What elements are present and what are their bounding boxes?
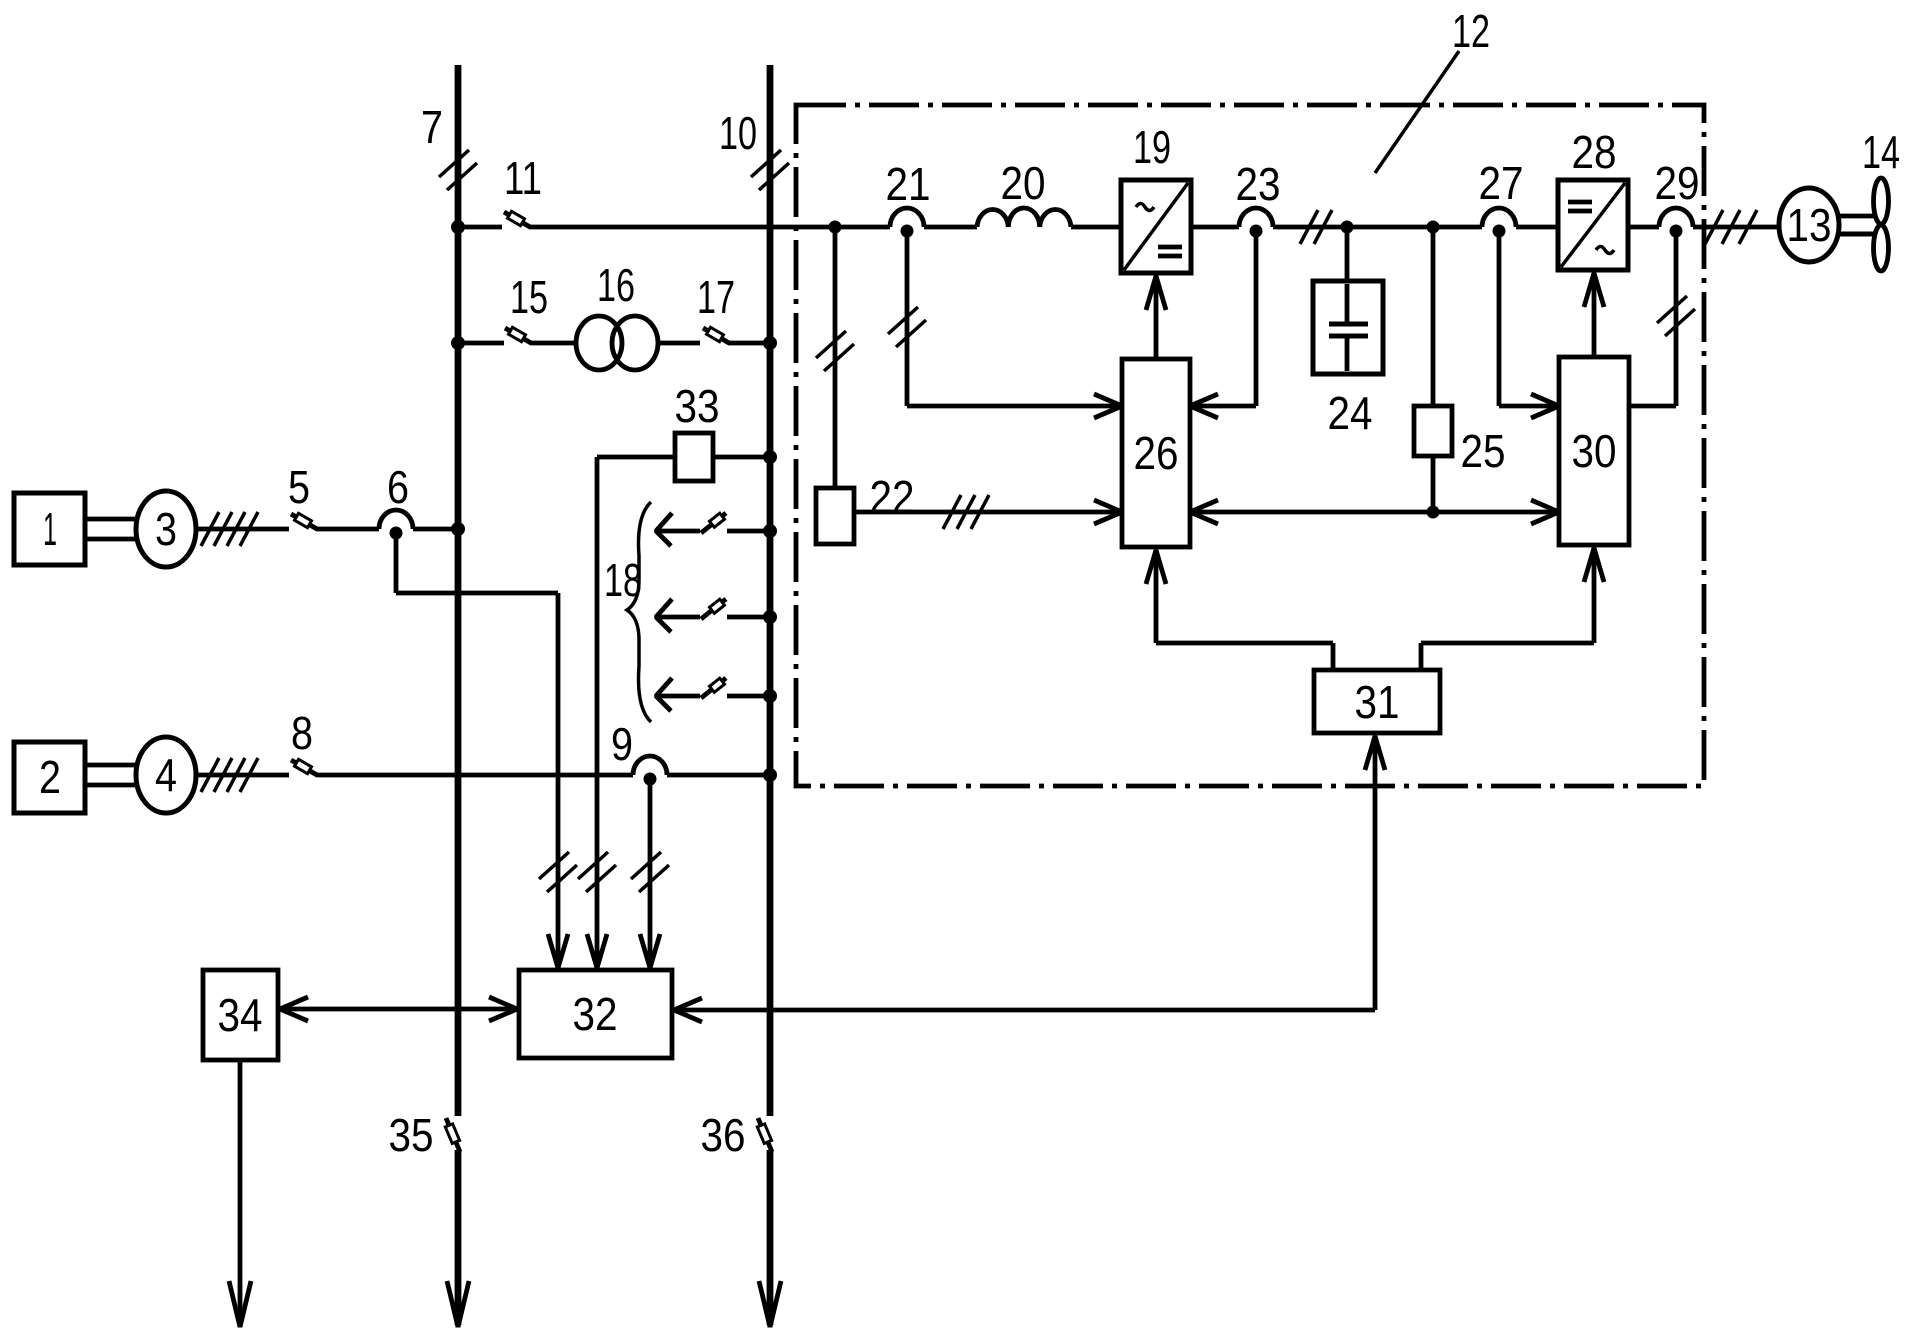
svg-text:36: 36 xyxy=(701,1109,746,1161)
controller 26 xyxy=(1122,359,1190,547)
node on bus 7 at line 15 xyxy=(451,336,465,350)
svg-text:7: 7 xyxy=(421,101,443,153)
node capacitor tap xyxy=(1341,221,1354,234)
svg-text:34: 34 xyxy=(218,989,263,1041)
node A junction in box 12 xyxy=(829,221,842,234)
switch 5 xyxy=(291,513,317,529)
break slashes on tap 6 xyxy=(539,852,577,892)
link wire 26 to 30 xyxy=(1192,510,1557,515)
arrow into 32 from sensor 6 xyxy=(548,934,568,968)
node on bus 10 at 33 xyxy=(763,450,777,464)
node on bus 10 at line 8 xyxy=(763,768,777,782)
wire: node to box 25 and link line xyxy=(1431,227,1436,512)
svg-text:12: 12 xyxy=(1452,5,1490,57)
break slashes on tap 29 xyxy=(1657,296,1695,336)
arrow into 30 left lower xyxy=(1531,500,1559,524)
brace for group 18 xyxy=(627,502,651,722)
svg-text:30: 30 xyxy=(1572,425,1617,477)
coordinator 31 xyxy=(1314,670,1440,733)
svg-text:31: 31 xyxy=(1355,676,1400,728)
wire: sensor 21 to inductor 20 xyxy=(924,225,977,230)
break slashes on tap 22 xyxy=(816,331,854,371)
svg-text:24: 24 xyxy=(1328,387,1373,439)
contactor 18a xyxy=(656,513,770,546)
break slashes on tap 33 xyxy=(578,852,616,892)
box 33 (voltage sensor) xyxy=(675,433,713,481)
phase slashes before motor xyxy=(1705,210,1757,244)
leader line for 12 xyxy=(1375,51,1459,173)
switch 15 xyxy=(505,327,531,343)
wire: box 33 tap down to 32 xyxy=(597,457,675,966)
wire: capacitor 24 feed xyxy=(1345,227,1350,281)
wire: sensor 21 tap to controller 26 xyxy=(907,235,1120,406)
svg-text:3: 3 xyxy=(155,503,177,555)
svg-text:35: 35 xyxy=(389,1109,434,1161)
current sensor 23 xyxy=(1239,208,1273,238)
wire: 31 to 30 (control) xyxy=(1421,548,1594,670)
svg-text:9: 9 xyxy=(611,718,633,770)
wire: sensor 29 to motor 13 xyxy=(1693,225,1779,230)
wire: converter 28 to sensor 29 xyxy=(1628,225,1659,230)
box 22 (voltage sensor) xyxy=(816,488,854,544)
wire: 31 to 26 (control) xyxy=(1156,550,1333,670)
svg-text:19: 19 xyxy=(1133,121,1171,173)
break slashes on tap 9 xyxy=(631,852,669,892)
arrow into 32 left xyxy=(489,997,517,1021)
svg-text:23: 23 xyxy=(1236,158,1281,210)
arrow into 26 left lower xyxy=(1094,500,1122,524)
bus 10 break slashes xyxy=(751,150,789,190)
svg-text:4: 4 xyxy=(155,749,177,801)
arrow into 30 left upper xyxy=(1531,394,1559,418)
node 18c on bus 10 xyxy=(763,689,777,703)
arrow into 31 bottom xyxy=(1365,736,1385,770)
node 18b on bus 10 xyxy=(763,610,777,624)
shaft motor to propeller xyxy=(1839,216,1874,234)
svg-text:29: 29 xyxy=(1655,157,1700,209)
current sensor 6 xyxy=(379,510,413,540)
propeller 14 xyxy=(1874,178,1889,271)
node on bus 7 at line 5 xyxy=(451,522,465,536)
arrow into 19 xyxy=(1146,276,1166,310)
current sensor 29 xyxy=(1659,208,1693,238)
switch 17 xyxy=(703,327,729,343)
wire: switch 17 to bus 10 xyxy=(728,341,770,346)
svg-text:17: 17 xyxy=(697,271,735,323)
node 18a on bus 10 xyxy=(763,524,777,538)
wire: node A tap down to box 22 xyxy=(833,231,838,488)
switch 36 on bus 10 xyxy=(757,1118,772,1152)
switch 8 xyxy=(291,759,317,775)
control system 32 xyxy=(519,970,672,1058)
arrow into 26 left upper xyxy=(1094,394,1122,418)
current sensor 21 xyxy=(890,208,924,238)
box 1 (energy source) xyxy=(14,493,85,565)
wire: controller 30 to converter 28 (control) xyxy=(1592,275,1597,357)
capacitor 24 xyxy=(1313,281,1383,374)
wire: sensor 9 to bus 10 xyxy=(667,773,770,778)
controller 30 xyxy=(1559,357,1629,545)
current sensor 9 xyxy=(633,756,667,786)
wire: bus7 to switch 11 xyxy=(458,225,502,230)
arrow into 28 xyxy=(1584,273,1604,307)
converter 28 (DC/AC inverter) xyxy=(1558,180,1628,270)
wire: sensor 23 to sensor 27 (dc link) xyxy=(1273,225,1482,230)
box 2 (energy source) xyxy=(14,742,85,813)
wire: sensor 29 tap to controller 30 xyxy=(1629,235,1676,406)
phase slashes after generator 4 xyxy=(201,758,258,792)
node on link at 25 xyxy=(1427,506,1440,519)
svg-text:28: 28 xyxy=(1572,126,1617,178)
wire: sensor 6 to bus 7 xyxy=(413,527,458,532)
node on bus 10 at line 17 xyxy=(763,336,777,350)
svg-text:32: 32 xyxy=(573,988,618,1040)
svg-text:2: 2 xyxy=(39,751,61,803)
wire: generator 3 to switch 5 xyxy=(196,527,289,532)
generator 4 xyxy=(136,737,196,813)
box 34 xyxy=(203,970,278,1060)
wire: switch 11 to node A (crosses bus 10) xyxy=(529,225,890,230)
arrow into 34 xyxy=(280,997,308,1021)
wire: converter 19 to sensor 23 xyxy=(1191,225,1239,230)
svg-text:16: 16 xyxy=(597,259,635,311)
wire: sensor 23 tap to controller 26 xyxy=(1192,235,1256,406)
contactor 18b xyxy=(656,599,770,632)
wire: bus7 to switch 15 xyxy=(458,341,504,346)
wire: box 22 to controller 26 xyxy=(854,510,1120,515)
wire: switch 15 to transformer 16 xyxy=(530,341,577,346)
arrow into 32 right xyxy=(674,998,702,1022)
switch 11 xyxy=(504,211,530,227)
arrow into 30 bottom xyxy=(1584,548,1604,582)
converter 19 (AC/DC rectifier) xyxy=(1121,180,1191,273)
wire: inductor 20 to converter 19 xyxy=(1071,225,1121,230)
wire: 34 down output xyxy=(238,1060,243,1325)
box 25 (voltage sensor) xyxy=(1414,406,1452,456)
switch 35 on bus 7 xyxy=(445,1118,460,1152)
transformer 16 xyxy=(576,316,658,370)
arrow into 26 right lower xyxy=(1190,500,1218,524)
inductor 20 xyxy=(977,208,1071,227)
wire: generator 4 to switch 8 xyxy=(196,773,289,778)
break slashes on tap 21 xyxy=(888,307,926,347)
wire: sensor 27 tap to controller 30 xyxy=(1499,235,1557,406)
arrow into 26 bottom xyxy=(1146,550,1166,584)
wire: transformer 16 to switch 17 xyxy=(658,341,700,346)
wire: switch 8 to sensor 9 (crosses bus 7) xyxy=(316,773,633,778)
svg-text:33: 33 xyxy=(675,380,720,432)
shaft box1 to generator 3 xyxy=(85,519,137,539)
svg-text:22: 22 xyxy=(870,471,915,523)
svg-text:14: 14 xyxy=(1862,126,1900,178)
wire: sensor 9 tap down to 32 xyxy=(648,779,653,966)
dash-dot enclosure box 12 xyxy=(796,105,1704,786)
arrow into 32 from 33 xyxy=(587,934,607,968)
node 25 tap xyxy=(1427,221,1440,234)
current sensor 27 xyxy=(1482,208,1516,238)
bus 10 bottom arrow xyxy=(759,1281,781,1327)
shaft box2 to generator 4 xyxy=(85,765,137,785)
svg-text:25: 25 xyxy=(1461,425,1506,477)
svg-text:8: 8 xyxy=(291,707,313,759)
svg-text:20: 20 xyxy=(1001,157,1046,209)
arrow into 32 from 9 xyxy=(640,934,660,968)
bus 10 (lower vertical busbar) xyxy=(767,65,774,1325)
motor 13 xyxy=(1779,188,1839,262)
wire: sensor 6 tap down xyxy=(396,533,558,966)
wire: 32 to 31 (control, crosses bus 10 and border 12) xyxy=(676,736,1375,1010)
arrow into 26 right upper xyxy=(1190,394,1218,418)
contactor 18c xyxy=(656,678,770,711)
svg-text:26: 26 xyxy=(1134,427,1179,479)
svg-text:21: 21 xyxy=(886,158,931,210)
break slashes on dc link xyxy=(1300,210,1332,244)
phase slashes after generator 3 xyxy=(201,512,258,546)
arrow at 34 output bottom xyxy=(229,1281,251,1327)
bus 7 break slashes xyxy=(439,150,477,190)
svg-text:11: 11 xyxy=(504,152,542,204)
svg-text:1: 1 xyxy=(43,503,57,555)
phase slashes on 22 wire xyxy=(943,495,989,529)
svg-text:10: 10 xyxy=(719,107,757,159)
wire: box 33 to bus 10 xyxy=(713,455,770,460)
wire: switch 5 to sensor 6 xyxy=(316,527,379,532)
generator 3 xyxy=(136,491,196,567)
svg-text:5: 5 xyxy=(288,461,310,513)
wire: controller 26 to converter 19 (control) xyxy=(1154,278,1159,359)
wire: 34 link 32 (double arrow, crosses bus 7) xyxy=(278,1007,517,1012)
node on bus 7 at line 11 xyxy=(451,220,465,234)
wire: sensor 27 to converter 28 xyxy=(1516,225,1558,230)
svg-text:27: 27 xyxy=(1479,157,1524,209)
bus 7 bottom arrow xyxy=(447,1281,469,1327)
svg-text:15: 15 xyxy=(510,271,548,323)
svg-text:18: 18 xyxy=(604,554,642,606)
svg-text:6: 6 xyxy=(387,461,409,513)
svg-text:13: 13 xyxy=(1787,199,1832,251)
bus 7 (upper vertical busbar) xyxy=(455,65,462,1325)
